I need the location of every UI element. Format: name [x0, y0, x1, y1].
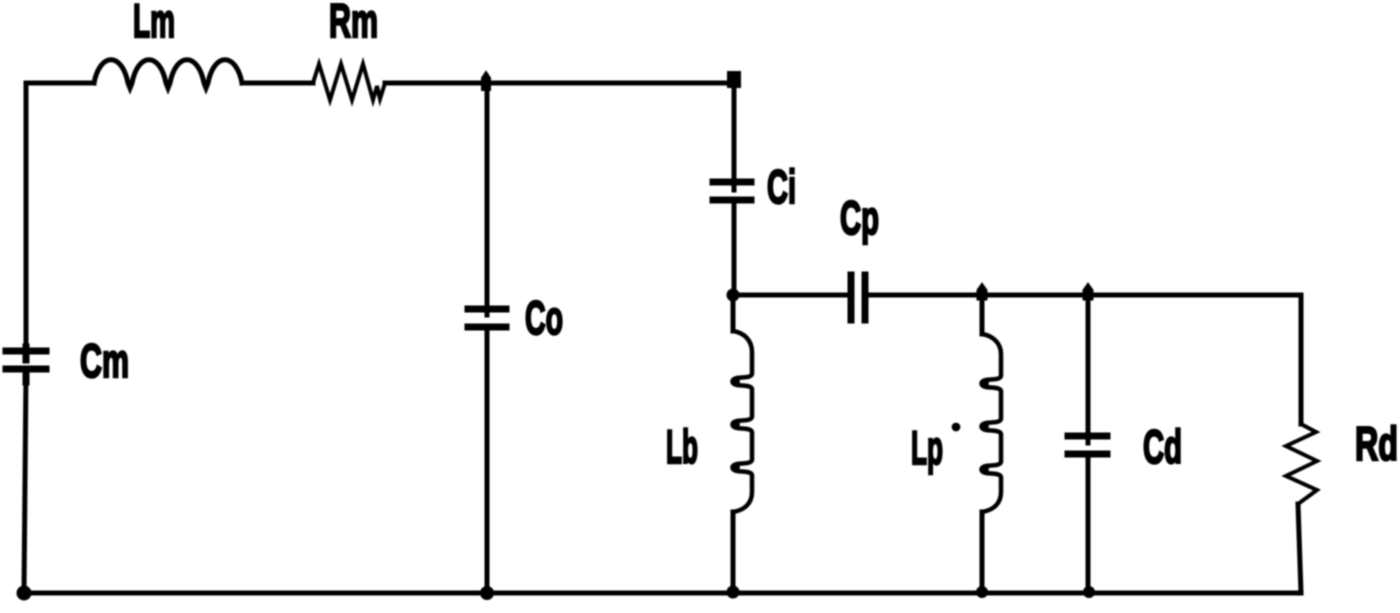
wire left vertical (lower) [24, 372, 26, 593]
wire Lb upper stub [731, 295, 736, 331]
wire Lp upper stub [980, 295, 985, 334]
svg-text:Cm: Cm [80, 334, 129, 387]
label Lp prime dot [953, 424, 959, 430]
resistor Rd [1286, 424, 1317, 504]
wire left vertical (upper) [24, 83, 29, 347]
wire Cd upper [1086, 295, 1091, 443]
svg-text:Rd: Rd [1355, 417, 1398, 470]
svg-text:Ci: Ci [767, 160, 796, 213]
inductor Lp [982, 334, 1002, 512]
svg-text:Cp: Cp [840, 191, 879, 244]
node C (junction Ci/Lb/Cp) [727, 289, 739, 301]
svg-text:Lm: Lm [133, 0, 175, 47]
wire Co upper [485, 83, 490, 315]
wire Lp lower stub [980, 512, 985, 593]
node E (Lp bottom junction) [977, 587, 988, 598]
inductor Lb loop tips [733, 378, 740, 385]
node A (top junction at Co) [482, 72, 490, 90]
node H (bottom-left corner) [17, 586, 31, 600]
capacitor Co [468, 309, 506, 327]
wire Rd upper [1299, 295, 1304, 424]
capacitor Cm [6, 347, 46, 382]
svg-text:Lp: Lp [911, 421, 943, 474]
wire between Lm and Rm [242, 81, 313, 86]
inductor Lb [733, 331, 753, 512]
svg-text:Rm: Rm [329, 0, 378, 47]
wire middle right segment [869, 293, 1301, 298]
capacitor Cp [851, 275, 865, 320]
svg-text:Co: Co [525, 291, 563, 344]
resistor Rm [313, 64, 385, 100]
wire Ci upper [732, 83, 737, 190]
wire Co lower [485, 327, 490, 593]
inductor Lp loop tips [982, 380, 989, 387]
capacitor Cd [1068, 436, 1107, 454]
node F (Cd top junction) [1083, 283, 1093, 300]
wire Lb lower stub [731, 512, 736, 593]
node J (Lb bottom junction) [727, 586, 739, 598]
wire Cd lower [1086, 454, 1091, 593]
inductor Lm [94, 60, 242, 88]
wire Rm to top-right node [385, 81, 736, 86]
svg-text:Lb: Lb [666, 420, 698, 473]
node D (Lp top junction) [977, 283, 987, 300]
svg-text:Cd: Cd [1143, 420, 1182, 473]
node I (Co bottom junction) [481, 587, 494, 600]
wire top-left segment [26, 81, 94, 86]
capacitor Ci [713, 182, 751, 200]
wire Rd lower [1298, 504, 1301, 593]
wire Ci lower [732, 200, 737, 295]
wire middle left segment [733, 293, 845, 298]
node B (top-right terminal) [728, 72, 740, 87]
wire bottom rail [24, 591, 1301, 596]
node G (Cd bottom junction) [1084, 587, 1095, 598]
